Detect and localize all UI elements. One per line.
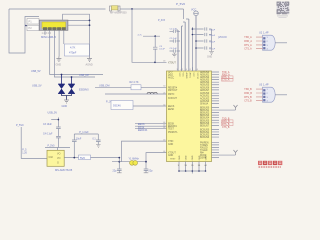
ground AGND shield <box>87 57 92 62</box>
IC U1 right pin stubs group A <box>212 72 220 90</box>
resistor R2 <box>131 85 141 90</box>
svg-text:BCBUS3: BCBUS3 <box>200 137 210 139</box>
QR code <box>277 2 290 15</box>
svg-text:GND: GND <box>192 155 194 160</box>
svg-text:RESET#: RESET# <box>168 87 178 89</box>
svg-text:VCC: VCC <box>181 73 183 78</box>
svg-text:ADBUS3: ADBUS3 <box>200 79 210 82</box>
net label box 3V3 <box>79 155 91 160</box>
IC U1 FT2232D body <box>167 71 212 162</box>
svg-text:U3 J_4P: U3 J_4P <box>259 83 269 86</box>
svg-text:TEST: TEST <box>168 129 174 131</box>
svg-text:MINI-USB-B: MINI-USB-B <box>41 35 56 39</box>
svg-text:XTIN: XTIN <box>168 141 174 143</box>
svg-text:VCC: VCC <box>192 73 194 78</box>
wire aux y36 <box>143 35 160 37</box>
svg-text:P_5V0: P_5V0 <box>176 2 185 6</box>
svg-text:22p: 22p <box>149 169 154 172</box>
svg-text:PWRCTL: PWRCTL <box>168 132 178 134</box>
svg-text:DSR#: DSR# <box>200 158 207 160</box>
svg-text:RTS_A: RTS_A <box>244 44 252 47</box>
svg-text:ADBUS1: ADBUS1 <box>200 74 210 77</box>
svg-text:VCC: VCC <box>191 9 196 12</box>
svg-text:C4 1uF: C4 1uF <box>170 28 178 30</box>
svg-text:EESK: EESK <box>168 109 175 111</box>
svg-text:0.1uF: 0.1uF <box>210 48 216 50</box>
svg-text:CTS_B: CTS_B <box>222 127 230 129</box>
wire XTOUT <box>146 153 167 162</box>
IC U1 top pin stubs <box>178 16 196 71</box>
RC shield network R3/C4 <box>65 43 90 57</box>
regulator U3 <box>47 150 73 172</box>
J3 red labels <box>244 89 252 102</box>
svg-text:VCC: VCC <box>178 73 180 78</box>
IC U1 right pin stubs group B <box>212 93 220 103</box>
svg-text:0.1uF: 0.1uF <box>210 35 216 37</box>
wire P12V drop <box>21 127 47 158</box>
svg-text:4.7K: 4.7K <box>70 46 76 50</box>
wire J2 out <box>275 42 287 44</box>
svg-text:0.1uF: 0.1uF <box>210 41 216 43</box>
capacitor C10 <box>144 162 149 173</box>
svg-text:CTS_A: CTS_A <box>244 48 252 51</box>
svg-text:AGND: AGND <box>185 73 188 80</box>
svg-text:GND: GND <box>185 155 187 160</box>
svg-text:BDBUS7: BDBUS7 <box>200 125 210 127</box>
connector J3 right bottom <box>259 83 275 102</box>
svg-text:TXD_A: TXD_A <box>244 36 252 39</box>
svg-text:VCCIO: VCCIO <box>196 73 198 80</box>
svg-text:GND: GND <box>168 144 173 146</box>
NC flag 2 <box>234 150 238 155</box>
svg-text:GND: GND <box>168 155 173 157</box>
IC U1 right pin stubs group C <box>212 108 220 126</box>
svg-text:USB_DM: USB_DM <box>99 85 109 88</box>
svg-text:GND: GND <box>62 105 68 108</box>
svg-text:ADBUS5: ADBUS5 <box>200 84 210 87</box>
connector J1 label boxes <box>25 19 39 31</box>
wire left loop <box>9 9 39 53</box>
svg-text:RSTO: RSTO <box>168 94 175 96</box>
svg-text:MF-MSMF050: MF-MSMF050 <box>110 11 127 15</box>
J2 red stubs <box>256 37 263 48</box>
svg-text:TXD_B: TXD_B <box>244 89 252 91</box>
svg-text:RXD_B: RXD_B <box>244 93 252 95</box>
svg-text:1.26: 1.26 <box>22 151 27 154</box>
svg-text:22p: 22p <box>113 169 118 172</box>
svg-text:44: 44 <box>163 151 165 153</box>
wire J3 out <box>275 94 287 96</box>
wire RSTOUT w resistor R2 <box>95 86 167 88</box>
svg-text:USB_DP: USB_DP <box>79 74 89 77</box>
svg-text:TEST: TEST <box>170 159 176 161</box>
svg-text:43: 43 <box>163 61 165 63</box>
IC U1 right pin stubs group E <box>212 142 220 157</box>
svg-text:AVCC: AVCC <box>189 73 192 79</box>
wire crystal rail <box>112 161 146 163</box>
crystal Y1 <box>129 157 140 165</box>
capacitor pair C7 C8 mid block <box>72 134 101 158</box>
component box on EECS wire <box>111 101 133 110</box>
svg-text:VO: VO <box>57 153 61 156</box>
svg-text:50: 50 <box>163 86 165 88</box>
svg-text:Y1 6MHz: Y1 6MHz <box>129 157 140 160</box>
svg-text:93C46: 93C46 <box>113 104 121 108</box>
ground TVS <box>64 100 69 103</box>
svg-text:AVCC: AVCC <box>168 77 175 80</box>
right labels A <box>222 71 230 82</box>
junction cap bank <box>192 28 194 30</box>
svg-text:EECS: EECS <box>168 106 175 108</box>
svg-text:G: G <box>57 162 59 165</box>
watermark logo <box>258 161 282 168</box>
svg-text:0.1uF: 0.1uF <box>159 48 165 50</box>
svg-text:R2 4.7K: R2 4.7K <box>130 81 139 84</box>
svg-text:CTS_B: CTS_B <box>244 101 252 103</box>
svg-text:ADBUS7: ADBUS7 <box>200 89 210 92</box>
capacitor C9 <box>117 162 122 173</box>
svg-text:46: 46 <box>163 127 165 129</box>
svg-text:RXD_A: RXD_A <box>244 40 252 43</box>
ground GND under USB <box>56 57 61 62</box>
cap bank rails <box>176 9 212 71</box>
IC U1 left pin numbers <box>163 61 165 153</box>
connector J2 right top <box>259 31 275 50</box>
svg-text:SI/WUA: SI/WUA <box>200 102 209 105</box>
svg-text:AGND: AGND <box>86 64 93 67</box>
ferrite L1 <box>147 92 157 94</box>
svg-text:GND: GND <box>179 155 181 160</box>
svg-text:ESD8V0: ESD8V0 <box>79 89 89 92</box>
svg-text:10uF: 10uF <box>76 138 82 140</box>
svg-text:GND: GND <box>207 57 212 59</box>
wire shell top <box>63 14 90 43</box>
ground crystal <box>117 172 148 174</box>
IC U1 left pin names <box>168 62 178 157</box>
wire VBUS junction drop <box>131 8 133 10</box>
svg-text:3V3OUT: 3V3OUT <box>168 98 178 100</box>
svg-text:C3 10uF: C3 10uF <box>43 124 52 126</box>
IC U1 bottom pin stubs <box>179 162 206 174</box>
svg-text:MS-AMC78-05: MS-AMC78-05 <box>55 168 73 172</box>
cap column A <box>170 30 181 53</box>
wire regulator out <box>64 158 119 162</box>
wire top rail VBUS <box>9 8 184 10</box>
wire TVS common <box>62 94 72 100</box>
svg-text:32: 32 <box>163 104 165 106</box>
capacitor column C5 C6 <box>51 117 60 147</box>
J2 red labels <box>244 36 252 50</box>
wire to NC flag 2 <box>219 154 236 156</box>
svg-text:P1: P1 <box>29 20 33 24</box>
svg-text:470pF: 470pF <box>69 51 77 55</box>
svg-text:P_1.0uF: P_1.0uF <box>79 131 89 134</box>
svg-text:P_3V3: P_3V3 <box>158 20 166 22</box>
svg-text:P_5V0: P_5V0 <box>16 124 24 127</box>
svg-text:43: 43 <box>163 140 165 142</box>
IC U1 right pin names A <box>200 71 210 92</box>
svg-text:ACBUS1: ACBUS1 <box>200 95 210 98</box>
bottom pin numbers <box>170 159 208 168</box>
junction shell <box>89 20 91 22</box>
svg-text:}VCCIO: }VCCIO <box>218 36 227 39</box>
svg-text:USB_5V: USB_5V <box>31 70 41 73</box>
fuse F1 <box>110 6 128 15</box>
wire with ferrite L1 <box>105 93 167 95</box>
IC U1 right pin stubs group D <box>212 129 220 137</box>
J3 red stubs <box>256 89 263 100</box>
ground cap bank <box>209 48 214 54</box>
wire RESET group <box>135 124 167 129</box>
svg-text:P_5V0: P_5V0 <box>48 145 56 147</box>
wire to NC flag 1 <box>219 109 236 111</box>
svg-text:VO: VO <box>57 157 61 160</box>
svg-text:EEDATA: EEDATA <box>138 129 148 132</box>
TVS diodes D1 <box>58 75 75 94</box>
NC flag 1 <box>234 105 238 110</box>
svg-text:5V0: 5V0 <box>80 156 85 160</box>
svg-text:C4 0.1uF: C4 0.1uF <box>43 133 53 135</box>
QR caption <box>277 15 288 18</box>
svg-text:0.1uF: 0.1uF <box>210 29 216 31</box>
capacitor C3 <box>153 36 157 62</box>
svg-text:C1K: C1K <box>49 156 54 159</box>
svg-text:C5 1uF: C5 1uF <box>170 38 178 40</box>
wire XTIN <box>122 141 167 162</box>
junction D wires <box>61 74 63 76</box>
rail above regulator <box>45 148 70 151</box>
power port VCC <box>194 11 199 16</box>
svg-text:25: 25 <box>163 92 165 94</box>
svg-text:RTS_B: RTS_B <box>244 97 252 99</box>
svg-text:XTOUT: XTOUT <box>168 62 176 64</box>
svg-text:C6 1uF: C6 1uF <box>170 48 178 50</box>
connector J1 USB body <box>39 20 68 39</box>
svg-text:USB_5V: USB_5V <box>32 85 42 88</box>
svg-text:GND: GND <box>56 64 62 67</box>
svg-text:P2: P2 <box>29 26 33 30</box>
wire EECS <box>133 105 167 107</box>
ground C8 <box>96 145 101 148</box>
svg-text:RSTOUT: RSTOUT <box>168 90 178 92</box>
svg-text:USB_5V: USB_5V <box>48 111 58 114</box>
svg-text:ACBUS3: ACBUS3 <box>200 100 210 103</box>
wire USB pin drops <box>45 31 103 78</box>
svg-text:U2 J_4P: U2 J_4P <box>259 31 269 34</box>
